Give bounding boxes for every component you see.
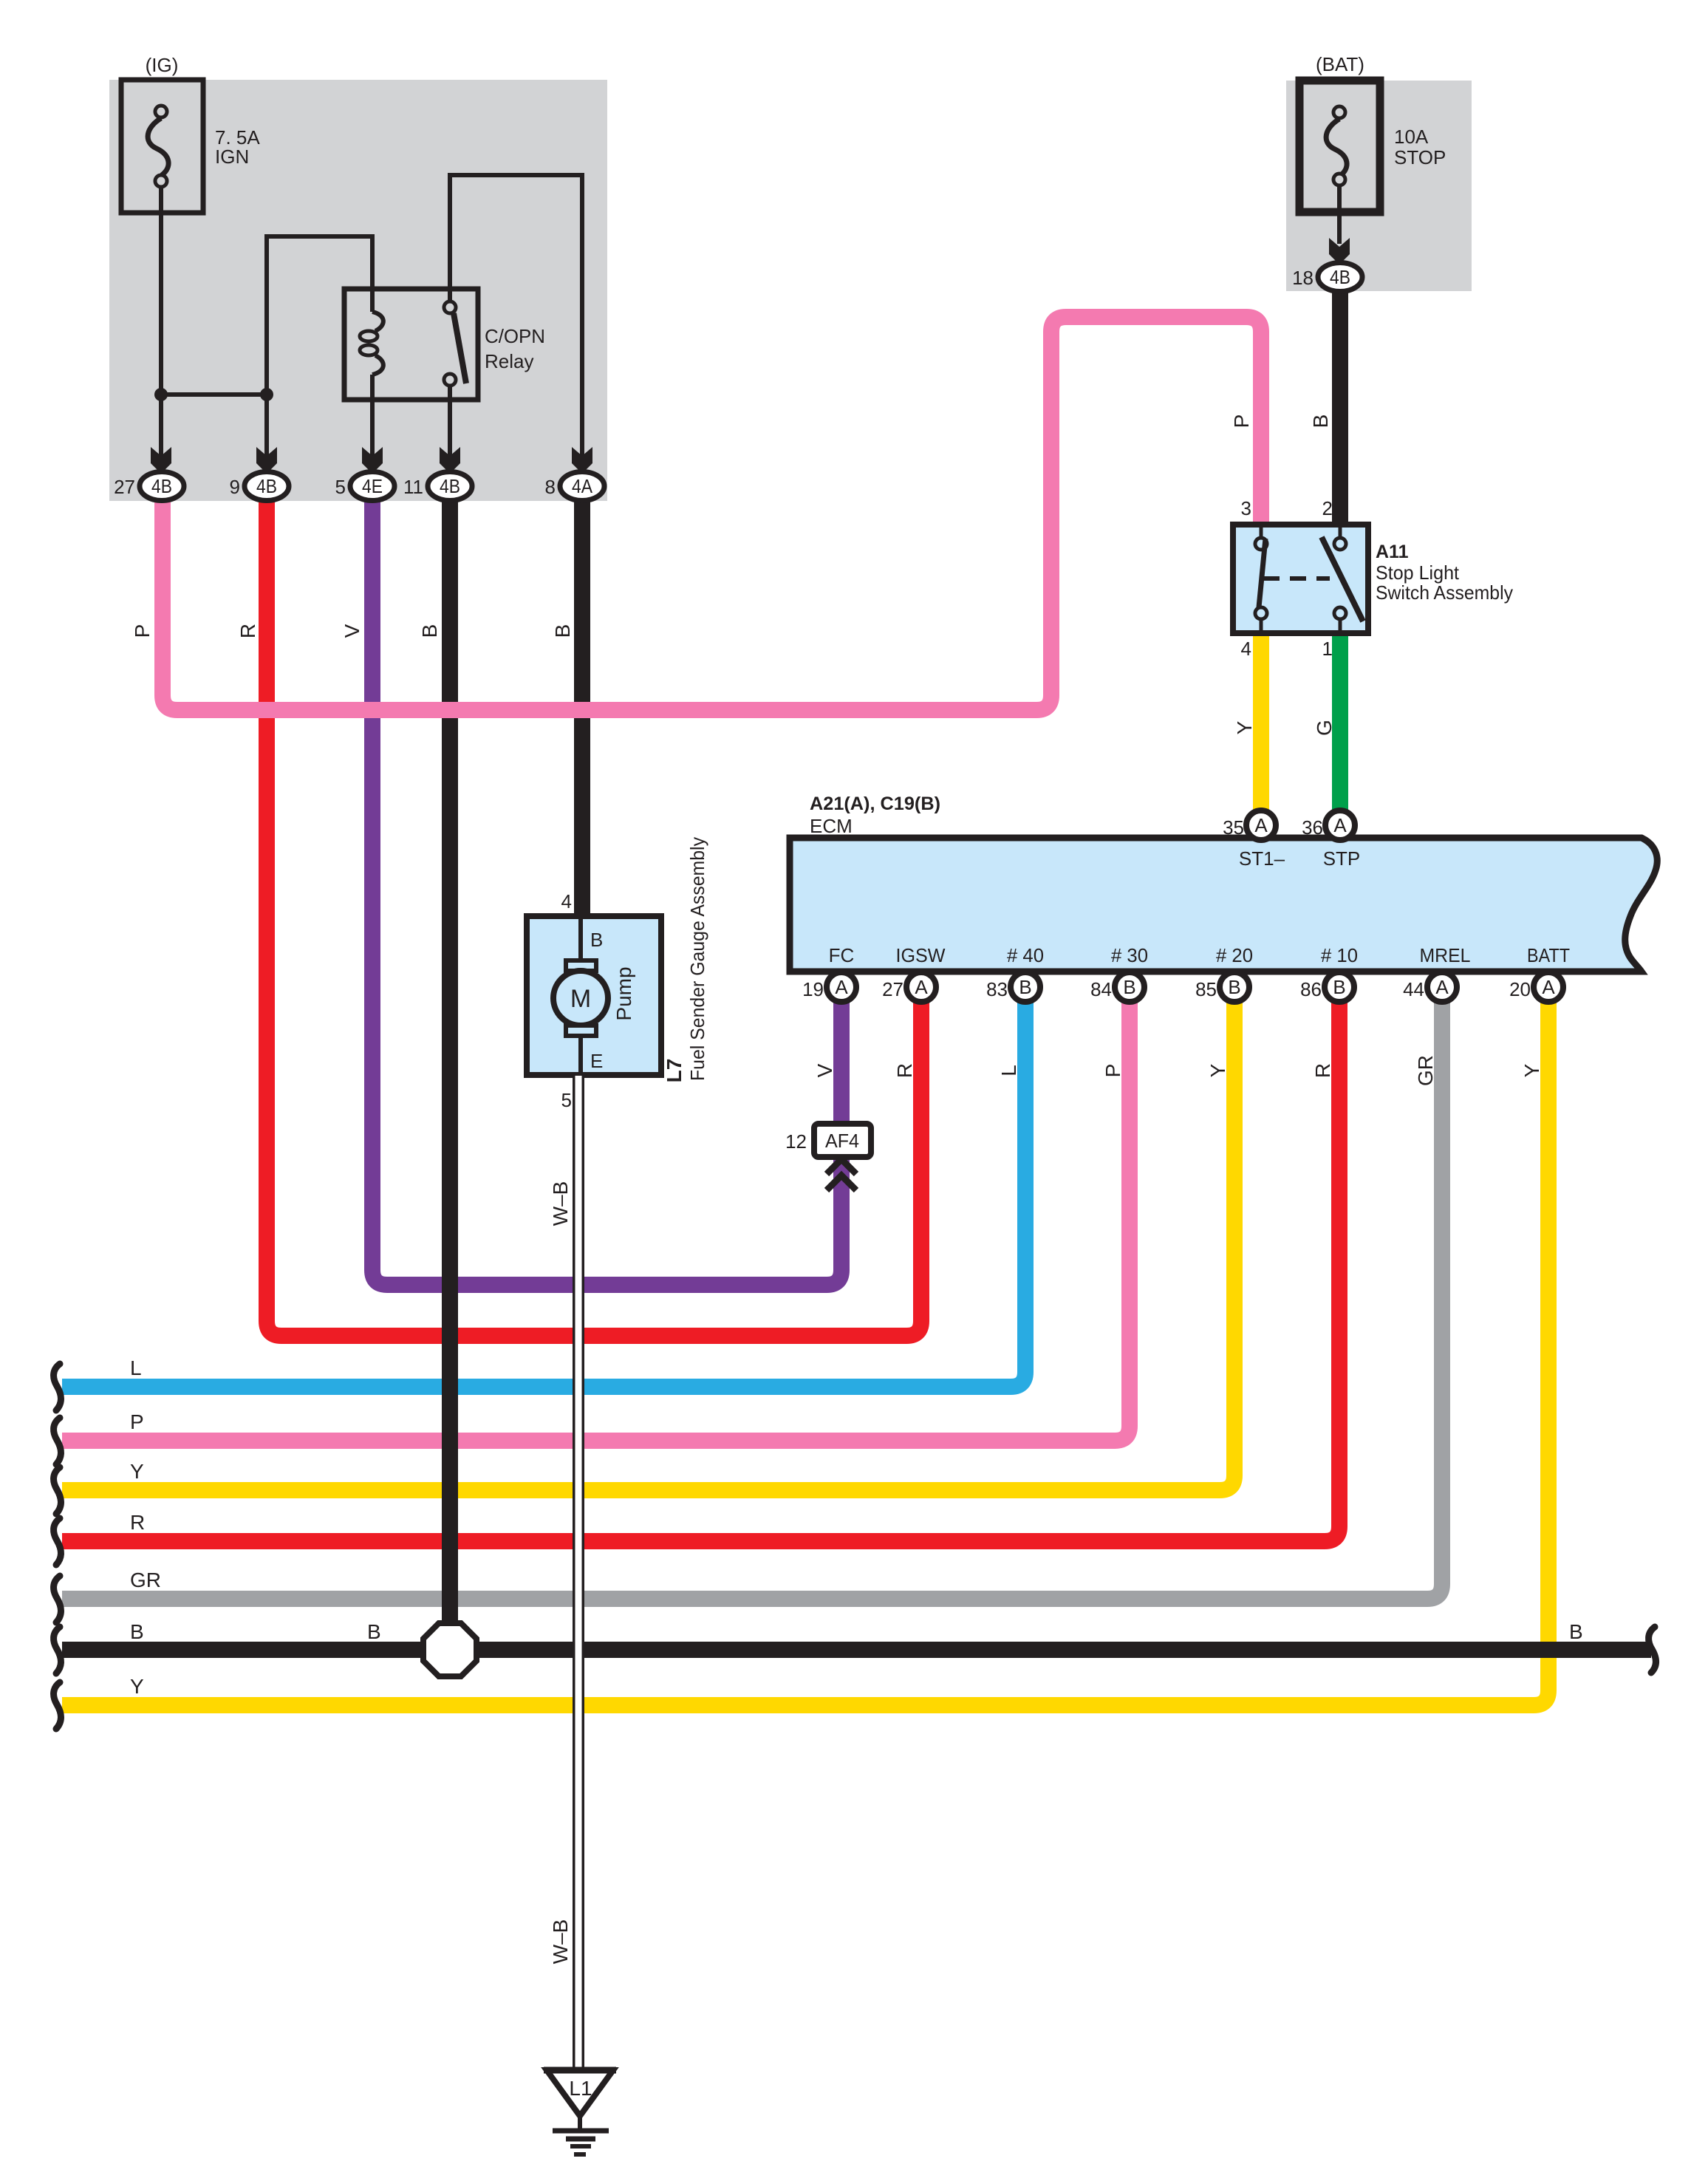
svg-text:20: 20 bbox=[1509, 978, 1531, 1000]
svg-text:# 40: # 40 bbox=[1007, 944, 1044, 966]
svg-text:BATT: BATT bbox=[1527, 944, 1570, 966]
harness squiggle B right bbox=[1649, 1627, 1656, 1673]
svg-text:G: G bbox=[1313, 720, 1336, 736]
wire relay contact to connector 8 bbox=[450, 175, 582, 458]
svg-text:Relay: Relay bbox=[485, 350, 533, 372]
svg-text:B: B bbox=[1569, 1620, 1583, 1643]
svg-text:# 30: # 30 bbox=[1111, 944, 1148, 966]
fuel pump assembly L7 bbox=[527, 837, 708, 1111]
wire relay coil to connector 5 bbox=[370, 375, 375, 458]
svg-text:IGSW: IGSW bbox=[896, 944, 946, 966]
svg-text:4B: 4B bbox=[151, 475, 172, 497]
wire fuse STOP to connector 18 bbox=[1337, 185, 1342, 244]
motor M pump bbox=[566, 960, 596, 971]
svg-text:A21(A), C19(B): A21(A), C19(B) bbox=[810, 793, 940, 814]
wire W-B fuel pump to ground bbox=[573, 1075, 584, 2068]
svg-text:5: 5 bbox=[335, 476, 346, 498]
svg-text:A: A bbox=[915, 976, 928, 998]
svg-text:12: 12 bbox=[785, 1130, 807, 1153]
ECM pin 20 A BATT bbox=[1534, 972, 1563, 1002]
svg-text:Y: Y bbox=[1233, 720, 1256, 734]
svg-text:A: A bbox=[835, 976, 848, 998]
svg-text:3: 3 bbox=[1241, 497, 1251, 519]
svg-text:P: P bbox=[131, 624, 154, 638]
connector 27 (4B) bbox=[114, 447, 184, 501]
svg-text:B: B bbox=[590, 929, 603, 951]
svg-text:L: L bbox=[130, 1356, 142, 1379]
wire Y ECM 20A BATT to harness bbox=[62, 1002, 1548, 1705]
svg-text:V: V bbox=[813, 1063, 836, 1077]
svg-text:83: 83 bbox=[986, 978, 1008, 1000]
svg-text:W–B: W–B bbox=[549, 1181, 572, 1226]
wire between junction dots bbox=[161, 392, 267, 397]
svg-text:W–B: W–B bbox=[549, 1919, 572, 1965]
ECM pin 44 A MREL bbox=[1427, 972, 1457, 1002]
svg-text:B: B bbox=[367, 1620, 381, 1643]
svg-text:Y: Y bbox=[1520, 1063, 1543, 1077]
svg-text:A: A bbox=[1333, 814, 1347, 836]
svg-text:A: A bbox=[1254, 814, 1268, 836]
harness squiggle L bbox=[54, 1364, 61, 1410]
connector 9 (4B) bbox=[230, 447, 289, 501]
svg-text:5: 5 bbox=[561, 1089, 572, 1111]
svg-text:R: R bbox=[236, 624, 259, 638]
ECM pin 35 A ST1- bbox=[1246, 810, 1276, 840]
svg-text:(IG): (IG) bbox=[146, 54, 179, 76]
svg-text:Y: Y bbox=[130, 1460, 144, 1483]
svg-text:86: 86 bbox=[1300, 978, 1322, 1000]
stop light switch assembly A11 bbox=[1233, 497, 1513, 660]
svg-text:GR: GR bbox=[1414, 1055, 1437, 1086]
svg-text:4: 4 bbox=[1241, 638, 1251, 660]
wire B connector 11 to ground junction bbox=[442, 500, 458, 1650]
svg-text:A: A bbox=[1542, 976, 1555, 998]
ECM pin 83 B #40 bbox=[1011, 972, 1040, 1002]
harness squiggle B bbox=[54, 1627, 61, 1673]
wire R (IGSW) ECM 27A to connector 9 bbox=[267, 500, 921, 1336]
svg-text:GR: GR bbox=[130, 1569, 161, 1591]
svg-text:R: R bbox=[130, 1511, 145, 1534]
connector 18 (4B) bbox=[1292, 238, 1362, 292]
svg-text:R: R bbox=[1311, 1063, 1334, 1078]
svg-text:# 10: # 10 bbox=[1321, 944, 1358, 966]
svg-text:B: B bbox=[1333, 976, 1345, 998]
connector 11 (4B) bbox=[403, 447, 472, 501]
wire V (FC) ECM 19A to connector 5 bbox=[372, 500, 841, 1285]
ECM pin 84 B #30 bbox=[1115, 972, 1144, 1002]
ground L1 bbox=[544, 2070, 616, 2154]
svg-text:2: 2 bbox=[1322, 497, 1333, 519]
svg-text:L: L bbox=[997, 1065, 1020, 1076]
svg-text:Pump: Pump bbox=[612, 966, 635, 1020]
wire junction B to connector 9 bbox=[264, 395, 269, 458]
connector 5 (4E) bbox=[335, 447, 394, 501]
svg-text:B: B bbox=[1228, 976, 1240, 998]
ECM pin 19 A FC bbox=[827, 972, 856, 1002]
svg-text:C/OPN: C/OPN bbox=[485, 325, 545, 347]
svg-text:4B: 4B bbox=[1330, 266, 1350, 288]
wire Y switch pin 4 to ECM 35A bbox=[1253, 633, 1269, 812]
fuse F2 10A STOP bbox=[1299, 53, 1446, 212]
wire fuse IGN to junction dot bbox=[159, 187, 163, 395]
connector AF4 pin 12 bbox=[785, 1124, 871, 1190]
svg-text:27: 27 bbox=[882, 978, 903, 1000]
svg-text:L1: L1 bbox=[569, 2077, 592, 2100]
wire R ECM 86B to harness bbox=[62, 1002, 1339, 1541]
wire B connector 8 to fuel pump bbox=[574, 500, 590, 916]
svg-text:Y: Y bbox=[1206, 1063, 1229, 1077]
svg-text:A11: A11 bbox=[1376, 542, 1409, 562]
svg-text:Stop Light: Stop Light bbox=[1376, 562, 1460, 584]
harness squiggle Y2 bbox=[54, 1682, 61, 1729]
wire junction B to relay coil bbox=[267, 236, 372, 395]
svg-text:P: P bbox=[130, 1410, 144, 1433]
svg-text:L7: L7 bbox=[663, 1059, 686, 1083]
fuse F1 7.5A IGN bbox=[121, 54, 260, 213]
svg-text:11: 11 bbox=[403, 476, 423, 498]
harness squiggle P bbox=[54, 1418, 61, 1464]
wire G switch pin 1 to ECM 36A bbox=[1332, 633, 1348, 812]
svg-text:27: 27 bbox=[114, 476, 135, 498]
svg-text:B: B bbox=[418, 624, 441, 638]
harness squiggle GR bbox=[54, 1576, 61, 1622]
svg-text:18: 18 bbox=[1292, 267, 1314, 289]
svg-text:19: 19 bbox=[802, 978, 824, 1000]
svg-text:V: V bbox=[341, 624, 363, 638]
svg-text:B: B bbox=[1123, 976, 1135, 998]
svg-text:B: B bbox=[1019, 976, 1031, 998]
svg-text:M: M bbox=[570, 985, 591, 1013]
wire junction to connector 27 bbox=[159, 395, 163, 458]
ECM A21(A) C19(B) bbox=[790, 793, 1657, 1002]
ECM pin 36 A STP bbox=[1325, 810, 1355, 840]
node junction dot B bbox=[260, 388, 273, 401]
connector 8 (4A) bbox=[545, 447, 604, 501]
wire B ground harness bbox=[62, 1642, 1651, 1658]
node junction dot A bbox=[154, 388, 168, 401]
svg-text:8: 8 bbox=[545, 476, 556, 498]
svg-text:E: E bbox=[590, 1050, 603, 1072]
svg-text:Fuel Sender Gauge Assembly: Fuel Sender Gauge Assembly bbox=[686, 837, 708, 1081]
svg-text:ST1–: ST1– bbox=[1239, 847, 1285, 870]
svg-text:4E: 4E bbox=[362, 475, 383, 497]
svg-text:IGN: IGN bbox=[215, 146, 249, 168]
svg-text:36: 36 bbox=[1302, 816, 1323, 839]
relay C/OPN bbox=[344, 289, 545, 400]
svg-text:P: P bbox=[1230, 414, 1253, 429]
svg-text:B: B bbox=[130, 1620, 144, 1643]
wire P connector 27 to stop light switch pin 3 bbox=[163, 317, 1261, 710]
svg-text:1: 1 bbox=[1322, 638, 1333, 660]
svg-text:# 20: # 20 bbox=[1216, 944, 1253, 966]
junction block panel (BAT) bbox=[1286, 81, 1472, 291]
svg-text:85: 85 bbox=[1195, 978, 1217, 1000]
wire L ECM 83B to harness bbox=[62, 1002, 1025, 1387]
svg-text:MREL: MREL bbox=[1420, 944, 1471, 966]
svg-text:35: 35 bbox=[1223, 816, 1244, 839]
svg-text:4A: 4A bbox=[572, 475, 593, 497]
svg-text:B: B bbox=[1309, 414, 1332, 429]
wire relay contact to connector 11 bbox=[448, 386, 452, 458]
ECM pin 27 A IGSW bbox=[906, 972, 936, 1002]
svg-text:A: A bbox=[1435, 976, 1449, 998]
svg-text:(BAT): (BAT) bbox=[1316, 53, 1364, 75]
svg-text:4B: 4B bbox=[440, 475, 460, 497]
junction octagon bbox=[423, 1623, 476, 1676]
ECM pin 85 B #20 bbox=[1220, 972, 1249, 1002]
svg-text:P: P bbox=[1101, 1064, 1124, 1078]
junction block panel (IG) bbox=[109, 80, 607, 501]
svg-text:9: 9 bbox=[230, 476, 240, 498]
wire P ECM 84B to harness bbox=[62, 1002, 1130, 1441]
svg-text:10A: 10A bbox=[1394, 126, 1429, 148]
svg-text:ECM: ECM bbox=[810, 815, 853, 837]
svg-text:4: 4 bbox=[561, 890, 572, 912]
svg-text:Y: Y bbox=[130, 1675, 144, 1698]
svg-text:4B: 4B bbox=[256, 475, 277, 497]
ECM pin 86 B #10 bbox=[1325, 972, 1354, 1002]
svg-text:STOP: STOP bbox=[1394, 146, 1446, 168]
svg-text:Switch Assembly: Switch Assembly bbox=[1376, 581, 1513, 604]
wire GR ECM 44A to harness bbox=[62, 1002, 1442, 1599]
svg-text:B: B bbox=[551, 624, 574, 638]
wire B connector 18 to stop light switch pin 2 bbox=[1332, 291, 1348, 525]
svg-text:AF4: AF4 bbox=[825, 1130, 859, 1152]
harness squiggle R bbox=[54, 1518, 61, 1565]
svg-text:44: 44 bbox=[1403, 978, 1424, 1000]
wire Y ECM 85B to harness bbox=[62, 1002, 1234, 1490]
harness squiggle Y bbox=[54, 1467, 61, 1514]
svg-text:R: R bbox=[893, 1063, 916, 1078]
svg-text:FC: FC bbox=[829, 944, 855, 966]
svg-text:84: 84 bbox=[1090, 978, 1112, 1000]
svg-text:STP: STP bbox=[1323, 847, 1361, 870]
